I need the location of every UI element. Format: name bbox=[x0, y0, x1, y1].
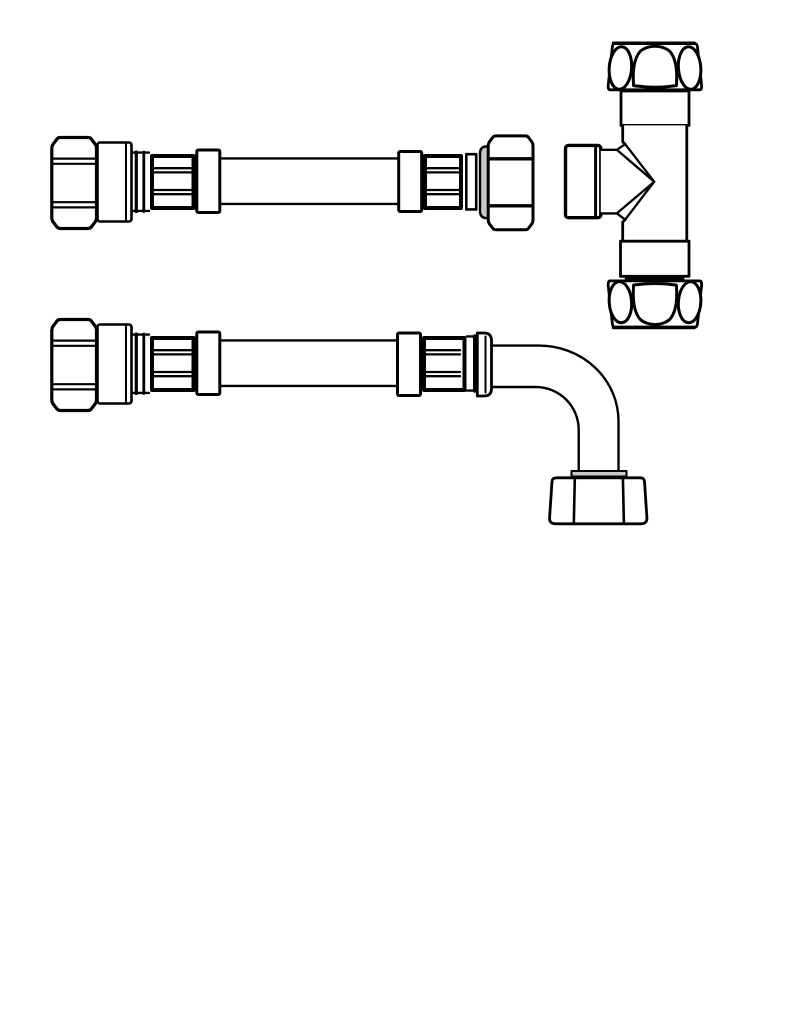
tee fitting: branch nut bbox=[566, 145, 601, 217]
hose assembly 2: end hex nut bbox=[550, 478, 647, 524]
tee fitting: vertical body bbox=[623, 125, 687, 241]
hose assembly 1: right shoulder cylinder bbox=[480, 146, 495, 218]
tee fitting: branch neck and cone bbox=[601, 144, 654, 219]
tee fitting: bottom hex nut outline bbox=[608, 281, 701, 327]
hose assembly 1: right hex nut bbox=[488, 136, 533, 230]
hose assembly 1: small ring bbox=[132, 152, 149, 212]
hose assembly 1: left crimp sleeve bbox=[152, 156, 194, 208]
hose assembly 1: right crimp sleeve bbox=[425, 156, 461, 208]
hose assembly 2: flange washer bbox=[572, 471, 627, 477]
tee fitting: top nut right facet lobe bbox=[677, 46, 702, 90]
hose assembly 2: left crimp sleeve bbox=[152, 338, 194, 390]
hose assembly 2: right collar with rounded corners bbox=[477, 333, 491, 396]
tee fitting: top nut centre facet lobe bbox=[633, 46, 676, 87]
tee fitting: bottom collar bbox=[621, 241, 690, 276]
hose assembly 2: bent tube inner line bbox=[492, 387, 579, 471]
hose assembly 2: bent tube outer line bbox=[492, 346, 619, 471]
tee fitting: top hex nut outline bbox=[608, 44, 701, 90]
tee fitting: line above bottom nut bbox=[627, 277, 683, 281]
hose assembly 1: right small ring bbox=[466, 154, 476, 209]
tee fitting: top collar bbox=[621, 91, 689, 125]
hose assembly 1: cylinder behind left nut bbox=[98, 143, 132, 222]
tee fitting: bottom nut bottom edge bbox=[614, 326, 695, 329]
hose assembly 2: cylinder behind left nut bbox=[98, 325, 132, 404]
tee fitting: top nut top edge bbox=[614, 42, 695, 45]
hose assembly 2: mid crimp sleeve bbox=[424, 338, 465, 390]
hose assembly 2: left collar bbox=[197, 332, 220, 395]
hose assembly 1: left hex nut bbox=[52, 138, 97, 229]
tee fitting: bottom nut centre facet lobe bbox=[633, 284, 676, 325]
tee fitting: line under top nut bbox=[627, 90, 683, 94]
hose assembly 2: mid collar bbox=[398, 333, 421, 396]
tee fitting: top nut left facet lobe bbox=[608, 46, 633, 90]
hose assembly 2: hose tube bbox=[220, 340, 398, 386]
hose assembly 2: left hex nut bbox=[52, 320, 97, 411]
hose assembly 2: small ring bbox=[132, 334, 149, 394]
tee fitting: bottom nut left facet lobe bbox=[608, 281, 633, 324]
tee fitting: bottom nut right facet lobe bbox=[677, 281, 702, 324]
hose assembly 1: right collar bbox=[399, 152, 422, 212]
hose assembly 2: mid small ring bbox=[467, 336, 479, 391]
hose assembly 1: hose tube bbox=[220, 158, 399, 204]
hose assembly 1: left collar bbox=[197, 150, 220, 213]
